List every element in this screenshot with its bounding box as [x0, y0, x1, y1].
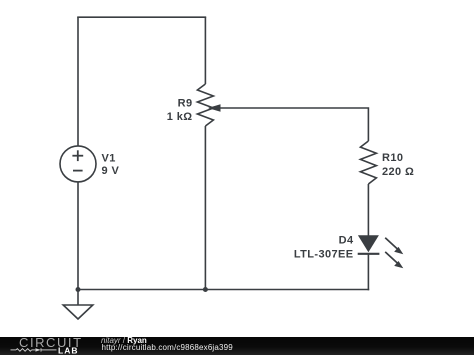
LED D4	[358, 235, 404, 268]
voltage source V1	[60, 146, 96, 182]
wire R9 bottom to bottom node	[204, 126, 206, 290]
junction dot at R9 bottom node	[203, 287, 208, 292]
wire bottom horizontal	[78, 289, 369, 291]
svg-text:220 Ω: 220 Ω	[382, 166, 414, 178]
wire top horizontal	[77, 16, 206, 18]
footer user line	[101, 337, 147, 345]
wire top-right corner to R9 top	[204, 17, 206, 84]
resistor R9 1k potentiometer	[197, 84, 220, 126]
svg-text:1 kΩ: 1 kΩ	[167, 111, 193, 123]
wire V1 positive to top-left corner	[77, 17, 79, 146]
junction dot at V1/ground node	[76, 287, 81, 292]
svg-text:D4: D4	[339, 235, 354, 247]
svg-text:R9: R9	[178, 98, 193, 110]
wire LED D4 cathode to bottom-right corner	[367, 254, 369, 290]
resistor R10	[360, 141, 376, 184]
wire V1 negative to ground node	[77, 182, 79, 290]
footer url line	[102, 344, 233, 352]
svg-text:9 V: 9 V	[102, 165, 120, 177]
wire R9 wiper to R10 top	[220, 108, 369, 141]
ground	[63, 290, 93, 320]
svg-text:V1: V1	[102, 153, 116, 165]
svg-text:LTL-307EE: LTL-307EE	[294, 248, 354, 260]
svg-text:R10: R10	[382, 152, 403, 164]
wire R10 bottom to LED D4 anode	[367, 184, 369, 236]
CircuitLab logo mark	[0, 345, 95, 355]
svg-text:LAB: LAB	[58, 346, 78, 355]
footer bar	[0, 337, 474, 355]
CircuitLab logo text	[19, 336, 83, 349]
